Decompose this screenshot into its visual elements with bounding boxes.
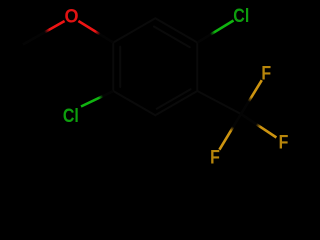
svg-text:F: F [261, 62, 271, 84]
bond C-F bottom [219, 114, 241, 150]
ring bond UL-T [113, 18, 155, 42]
svg-text:Cl: Cl [233, 4, 249, 26]
double bond inner line LL-UL [119, 47, 121, 87]
bond C-F top [241, 80, 262, 114]
benzene ring carbon skeleton (near-black) [113, 18, 241, 115]
ring bond T-UR [155, 18, 197, 42]
bond ring to CF3 carbon [197, 91, 241, 114]
svg-text:O: O [64, 5, 78, 27]
bond O-CH3 (methyl) [23, 21, 65, 45]
svg-text:Cl: Cl [63, 104, 79, 126]
bond O-ring [78, 21, 113, 43]
bond C-F right [241, 114, 276, 138]
bond Cl2-ring [81, 91, 113, 106]
bond Cl1-ring [197, 21, 233, 43]
double bond inner line T-UR [154, 27, 190, 48]
ring bond LL-UL [112, 43, 114, 92]
ring bond UR-LR [196, 43, 198, 92]
svg-text:F: F [279, 131, 289, 153]
svg-text:F: F [210, 146, 220, 168]
ring bond LR-B [155, 91, 197, 115]
double bond inner line LR-B [157, 89, 191, 109]
ring bond B-LL [113, 91, 155, 115]
chemical structure: 1,4-dichloro-2-methoxy-5-(trifluoromethyl)benzene on black [0, 0, 300, 176]
